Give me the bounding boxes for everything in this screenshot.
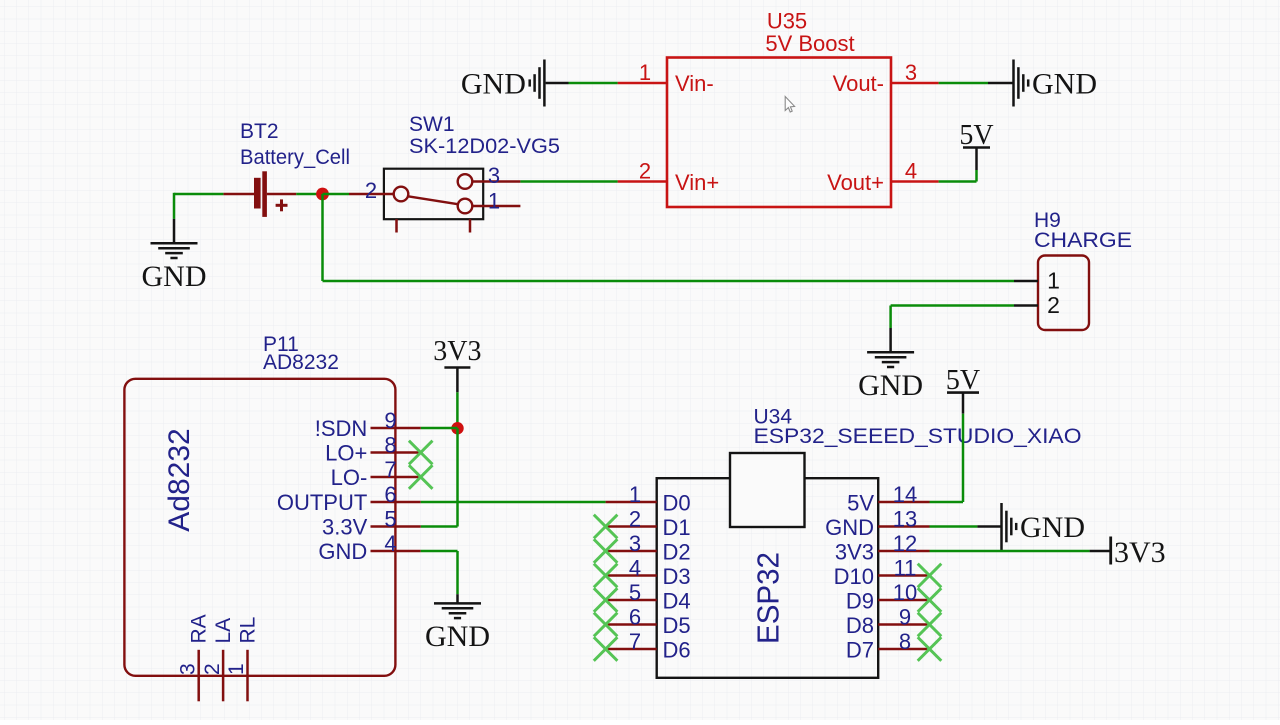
svg-text:4: 4 [629, 556, 641, 581]
switch SW1 reference label [409, 113, 455, 136]
wire junction to P11 !SDN [421, 427, 458, 430]
svg-text:RA: RA [188, 614, 211, 643]
svg-text:SW1: SW1 [409, 113, 455, 136]
P11 value label AD8232 [263, 351, 339, 374]
U35 value label 5V Boost [765, 31, 854, 56]
svg-text:9: 9 [899, 605, 911, 630]
svg-text:Vout-: Vout- [833, 71, 884, 96]
power 5V (above U35 Vout+) [959, 120, 993, 170]
svg-text:6: 6 [629, 605, 641, 630]
ground GND (below battery) [142, 219, 207, 293]
U34 pin 6 D5 [606, 605, 691, 638]
svg-text:3: 3 [488, 163, 500, 188]
junction at !SDN / 3V3 net [451, 422, 463, 434]
U34 pin 10 D9 [846, 580, 930, 613]
no-connect X on U34 left pin at y=526.5 [594, 515, 618, 539]
ground GND (left of U35 Vin-) [461, 60, 569, 107]
svg-text:Battery_Cell: Battery_Cell [240, 146, 350, 169]
svg-text:5: 5 [384, 507, 396, 532]
svg-text:3V3: 3V3 [835, 539, 874, 564]
U34 pin 11 D10 [834, 556, 930, 589]
wire SW1 pin3 to U35 pin2 [520, 180, 617, 183]
SW1 pin 1 [472, 189, 520, 214]
P11 pin 3 RA (bottom) [176, 614, 210, 701]
U34 notch rectangle [730, 453, 805, 527]
battery BT2 reference label [240, 120, 279, 143]
H9 value label CHARGE [1034, 229, 1132, 252]
svg-text:3: 3 [905, 60, 917, 85]
svg-text:10: 10 [893, 580, 917, 605]
H9 pin 1 [1014, 268, 1060, 294]
wire 3V3 down to junction [456, 392, 459, 428]
no-connect X on U34 left pin at y=649 [594, 637, 618, 661]
junction at battery output [316, 188, 329, 201]
svg-text:ESP32: ESP32 [750, 552, 785, 644]
svg-text:4: 4 [384, 531, 396, 556]
no-connect X on U34 right pin at y=575.5 [918, 564, 942, 588]
svg-text:3V3: 3V3 [433, 336, 481, 367]
svg-text:LO+: LO+ [325, 441, 367, 466]
wire U34 3V3 pin to 3V3 power [930, 550, 1090, 553]
no-connect X on U34 left pin at y=575.5 [594, 564, 618, 588]
no-connect X on P11 LO- [409, 465, 433, 489]
svg-text:11: 11 [894, 556, 917, 581]
no-connect X on U34 left pin at y=600 [594, 588, 618, 612]
svg-text:D8: D8 [846, 613, 874, 638]
svg-text:1: 1 [488, 189, 500, 214]
no-connect X on U34 right pin at y=649 [918, 637, 942, 661]
svg-text:13: 13 [893, 507, 917, 532]
svg-text:GND: GND [142, 260, 207, 293]
svg-text:LO-: LO- [331, 465, 368, 490]
U34 pin 2 D1 [606, 507, 691, 540]
U35 pin 2 Vin+ [618, 159, 720, 196]
IC U35 5V Boost body [667, 58, 891, 208]
module U34 ESP32 body [657, 478, 879, 678]
wire P11 GND pin to ground [421, 551, 458, 594]
svg-text:2: 2 [629, 507, 641, 532]
power 3V3 (above P11) [433, 336, 481, 392]
svg-text:CHARGE: CHARGE [1034, 229, 1132, 252]
svg-text:RL: RL [236, 617, 259, 644]
svg-text:5: 5 [629, 580, 641, 605]
svg-text:D7: D7 [846, 637, 874, 662]
no-connect X on U34 left pin at y=551 [594, 539, 618, 563]
U34 pin 3 D2 [606, 531, 691, 564]
wire H9 pin2 to GND [891, 306, 1014, 329]
wire junction down to 3.3V pin [421, 428, 458, 526]
svg-text:Vout+: Vout+ [827, 170, 884, 195]
wire junction to SW1 pin 2 [323, 193, 350, 196]
no-connect X on U34 right pin at y=600 [918, 588, 942, 612]
U34 pin 14 5V [847, 482, 929, 515]
ground GND (below H9) [858, 328, 923, 402]
svg-text:2: 2 [1047, 292, 1060, 318]
wire U35 pin4 to 5V [939, 170, 977, 182]
U34 pin 4 D3 [606, 556, 691, 589]
connector H9 reference label [1034, 209, 1061, 232]
svg-text:3V3: 3V3 [1114, 536, 1166, 569]
svg-text:3: 3 [176, 663, 199, 675]
P11 pin 8 LO+ [325, 433, 421, 466]
U34 pin 1 D0 [606, 482, 691, 515]
U35 pin 1 Vin- [618, 60, 714, 96]
svg-text:GND: GND [1020, 511, 1085, 544]
svg-text:GND: GND [858, 369, 923, 402]
svg-text:1: 1 [639, 60, 651, 85]
svg-text:Vin+: Vin+ [675, 170, 719, 195]
svg-text:8: 8 [899, 629, 911, 654]
SW1 value label SK-12D02-VG5 [409, 135, 560, 158]
wire 5V to U34 pin 14 [930, 414, 964, 502]
U34 ESP32 big label [750, 552, 785, 644]
P11 pin 1 RL (bottom) [225, 617, 259, 702]
U35 pin 4 Vout+ [827, 159, 938, 196]
U34 pin 13 GND [825, 507, 929, 540]
switch SW1 body [384, 169, 483, 233]
P11 pin 4 GND [318, 531, 420, 564]
IC P11 reference label [263, 333, 299, 356]
P11 pin 7 LO- [331, 457, 421, 490]
svg-text:!SDN: !SDN [315, 416, 368, 441]
svg-text:7: 7 [384, 457, 396, 482]
svg-text:D10: D10 [834, 564, 874, 589]
U35 pin 3 Vout- [833, 60, 939, 96]
SW1 pin 3 [472, 163, 520, 188]
U34 value label ESP32_SEEED_STUDIO_XIAO [754, 425, 1082, 448]
ground GND (below P11) [425, 594, 490, 653]
IC P11 AD8232 body [124, 379, 395, 676]
wire battery left to GND corner [174, 193, 223, 219]
svg-text:GND: GND [825, 515, 874, 540]
ground GND (right of U35 Vout-) [988, 60, 1097, 107]
ground GND (right of U34) [977, 503, 1085, 550]
no-connect X on P11 LO+ [409, 441, 433, 465]
P11 pin 9 !SDN [315, 408, 421, 441]
svg-text:Vin-: Vin- [675, 71, 714, 96]
SW1 pin 2 [349, 178, 394, 203]
svg-text:2: 2 [201, 663, 224, 675]
P11 Ad8232 big label [163, 428, 196, 531]
svg-text:GND: GND [425, 620, 490, 653]
mouse cursor [785, 97, 794, 113]
svg-text:5V: 5V [847, 490, 874, 515]
power 5V (above U34) [946, 365, 980, 414]
svg-text:14: 14 [893, 482, 917, 507]
wire GND to U35 pin1 [569, 82, 618, 85]
wire battery right to junction [296, 193, 322, 196]
svg-text:D5: D5 [663, 613, 691, 638]
svg-text:D6: D6 [663, 637, 691, 662]
svg-text:9: 9 [384, 408, 396, 433]
P11 pin 5 3.3V [322, 507, 421, 540]
svg-text:BT2: BT2 [240, 120, 279, 143]
svg-text:GND: GND [318, 539, 367, 564]
svg-text:4: 4 [905, 159, 917, 184]
svg-text:3: 3 [629, 531, 641, 556]
svg-text:D9: D9 [846, 588, 874, 613]
svg-text:2: 2 [365, 178, 377, 203]
svg-text:2: 2 [639, 159, 651, 184]
svg-text:D4: D4 [663, 588, 691, 613]
U34 pin 9 D8 [846, 605, 930, 638]
wire U35 pin3 to GND [939, 82, 988, 85]
power 3V3 (right) [1090, 536, 1166, 569]
BT2 value label Battery_Cell [240, 146, 350, 169]
wire U34 GND pin to ground [930, 525, 978, 528]
H9 pin 2 [1014, 292, 1060, 318]
svg-text:U35: U35 [767, 9, 807, 34]
svg-text:D2: D2 [663, 539, 691, 564]
svg-text:6: 6 [384, 482, 396, 507]
svg-text:GND: GND [1032, 68, 1097, 101]
U34 pin 8 D7 [846, 629, 930, 662]
svg-text:D1: D1 [663, 515, 691, 540]
svg-text:5V Boost: 5V Boost [765, 31, 854, 56]
svg-text:D0: D0 [663, 490, 691, 515]
svg-text:SK-12D02-VG5: SK-12D02-VG5 [409, 135, 560, 158]
U34 pin 7 D6 [606, 629, 691, 662]
U34 pin 12 3V3 [835, 531, 930, 564]
svg-text:ESP32_SEEED_STUDIO_XIAO: ESP32_SEEED_STUDIO_XIAO [754, 425, 1082, 448]
wire junction down and right to H9 pin 1 [323, 194, 1015, 281]
module U34 reference label [754, 406, 793, 429]
svg-text:D3: D3 [663, 564, 691, 589]
svg-text:OUTPUT: OUTPUT [277, 490, 367, 515]
svg-text:Ad8232: Ad8232 [163, 428, 196, 531]
U34 pin 5 D4 [606, 580, 691, 613]
svg-text:AD8232: AD8232 [263, 351, 339, 374]
P11 pin 2 LA (bottom) [201, 618, 235, 701]
no-connect X on U34 right pin at y=624.5 [918, 613, 942, 637]
svg-text:1: 1 [629, 482, 641, 507]
U35 reference label [767, 9, 807, 34]
no-connect X on U34 left pin at y=624.5 [594, 613, 618, 637]
svg-text:1: 1 [1047, 268, 1060, 294]
svg-text:1: 1 [225, 663, 248, 675]
connector H9 body [1038, 256, 1089, 331]
P11 pin 6 OUTPUT [277, 482, 421, 515]
svg-text:8: 8 [384, 433, 396, 458]
svg-text:7: 7 [629, 629, 641, 654]
svg-text:3.3V: 3.3V [322, 515, 368, 540]
svg-text:12: 12 [893, 531, 917, 556]
battery BT2 symbol [223, 171, 296, 217]
svg-text:GND: GND [461, 68, 526, 101]
wire P11 OUTPUT to ESP32 D0 [421, 501, 606, 504]
svg-text:LA: LA [212, 618, 235, 644]
